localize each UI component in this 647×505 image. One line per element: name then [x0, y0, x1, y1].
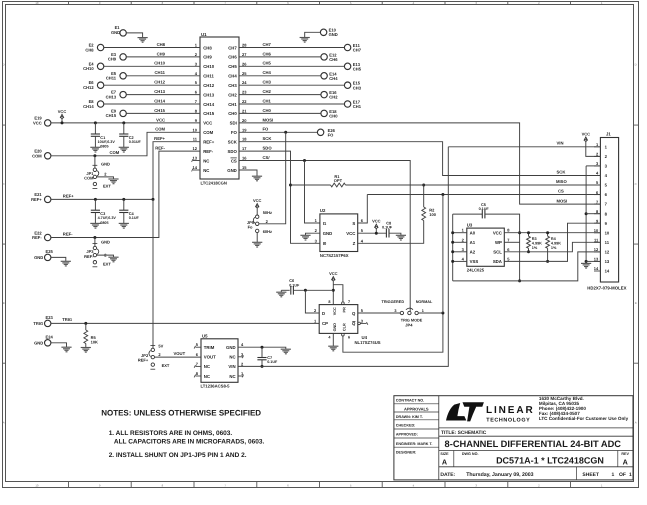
terminal E22 REF-: [32, 230, 51, 240]
JP2 labels: [138, 344, 170, 369]
wire E25 to ground: [51, 257, 66, 261]
terminal E10 GND: [320, 28, 337, 38]
svg-text:A1: A1: [470, 240, 476, 245]
wire U2 VCC pin5: [358, 232, 386, 234]
svg-text:NC: NC: [229, 355, 235, 360]
wire U2 GND pin2 to ground: [306, 233, 320, 235]
junction CS/ to U2.I1: [303, 159, 306, 162]
svg-text:10: 10: [594, 228, 599, 233]
terminal E23 TRIG: [33, 315, 53, 326]
wire U3 bottom rail to J1.12: [453, 252, 601, 281]
svg-text:D: D: [635, 63, 637, 67]
svg-text:D: D: [322, 311, 325, 316]
svg-text:J1: J1: [606, 132, 611, 137]
svg-text:27: 27: [242, 52, 247, 57]
svg-text:DATE:: DATE:: [440, 472, 455, 478]
svg-text:CH12: CH12: [154, 80, 165, 85]
junction U4 VCC / C6: [332, 289, 335, 292]
svg-text:CH15: CH15: [106, 113, 117, 118]
wire MOSI U1.20 to J1.7: [239, 123, 600, 204]
svg-text:OPT: OPT: [334, 178, 343, 183]
svg-text:CH1: CH1: [353, 104, 362, 109]
connector J1 body: [600, 138, 618, 283]
wire U1 CH7 to E11: [239, 47, 345, 49]
junction C1: [94, 121, 97, 124]
resistor R2 100: [422, 185, 426, 221]
svg-text:GND: GND: [101, 161, 110, 166]
U1 refdes label: [201, 32, 207, 37]
svg-text:24: 24: [242, 80, 247, 85]
svg-text:A0: A0: [470, 231, 476, 236]
svg-text:SCK: SCK: [228, 140, 238, 145]
svg-text:CLR: CLR: [343, 323, 347, 331]
svg-text:0.1UF: 0.1UF: [267, 360, 278, 364]
svg-text:0.01UF: 0.01UF: [129, 140, 142, 144]
ground at E25: [61, 261, 71, 266]
svg-text:13: 13: [605, 259, 610, 264]
svg-text:19: 19: [242, 127, 247, 132]
svg-text:A: A: [3, 420, 5, 424]
svg-text:E24: E24: [46, 335, 54, 340]
net label CH13: [154, 89, 165, 94]
svg-text:TRIG: TRIG: [62, 317, 72, 322]
svg-text:CH13: CH13: [154, 89, 165, 94]
wire E4 to U1 pin 3: [104, 65, 200, 67]
title block grid: [394, 396, 633, 480]
svg-text:CH0: CH0: [263, 108, 272, 113]
wire CS/ branch to U2 I1: [305, 161, 320, 224]
svg-text:CS/: CS/: [263, 155, 271, 160]
ground at E24: [61, 347, 71, 352]
junction C7 top: [261, 346, 264, 349]
svg-text:WP: WP: [495, 240, 502, 245]
svg-text:CH15: CH15: [154, 108, 165, 113]
wire J1.8 to ground rail: [586, 213, 600, 215]
U2 pin names: [323, 221, 356, 246]
junction CS row / JP4: [441, 193, 444, 196]
svg-text:16: 16: [242, 156, 247, 161]
svg-text:CH10: CH10: [83, 66, 94, 71]
title schematic row: [441, 430, 487, 436]
wire U2 Z to R2: [358, 221, 424, 244]
junction J1.13 gnd: [585, 260, 588, 263]
svg-text:S: S: [352, 221, 355, 226]
wire REF+ down to JP2: [152, 199, 154, 348]
svg-text:SDI: SDI: [230, 121, 237, 126]
jumper JP2 REF+: [149, 345, 155, 369]
svg-text:CS: CS: [231, 158, 237, 163]
wire U3 pin1 to rail: [451, 231, 467, 234]
terminal E1 GND: [111, 25, 126, 36]
size / dwg / rev row: [440, 451, 629, 467]
svg-text:A: A: [442, 458, 447, 467]
svg-text:CHECKED:: CHECKED:: [396, 424, 415, 428]
net label CH7 right: [263, 42, 272, 47]
wire U3 pin2 to rail: [451, 241, 467, 244]
ground at U5: [281, 349, 291, 354]
svg-text:17: 17: [242, 146, 247, 151]
net label REF+ row: [154, 136, 165, 141]
net label CH10: [154, 61, 165, 66]
wire SCK U1.18 to J1.4: [239, 142, 600, 176]
terminal E17 CH1: [344, 100, 361, 110]
svg-text:FO: FO: [328, 133, 335, 138]
svg-text:CH7: CH7: [263, 42, 272, 47]
svg-text:DESIGNER:: DESIGNER:: [396, 451, 417, 455]
svg-text:TECHNOLOGY: TECHNOLOGY: [486, 418, 530, 424]
svg-text:3: 3: [394, 309, 396, 313]
svg-text:CH7: CH7: [353, 48, 362, 53]
junction C3: [94, 198, 97, 201]
U3 pin numbers: [462, 228, 511, 262]
svg-text:15: 15: [242, 165, 247, 170]
U1 pin names and numbers: [193, 43, 248, 173]
svg-text:CH10: CH10: [203, 64, 215, 69]
svg-text:1%: 1%: [532, 246, 538, 250]
svg-text:10: 10: [605, 230, 610, 235]
wire REF+ E21 to U1 pin11: [51, 142, 200, 200]
power VCC at JP5: [253, 198, 262, 215]
ground at C3: [90, 223, 100, 228]
capacitor C8 0.1UF: [386, 229, 401, 238]
svg-text:VIN: VIN: [557, 141, 564, 146]
svg-text:GND: GND: [111, 30, 120, 35]
net label CH3 right: [263, 80, 272, 85]
svg-text:13: 13: [193, 156, 198, 161]
svg-text:TRIG: TRIG: [33, 321, 43, 326]
svg-text:CH11: CH11: [203, 74, 214, 79]
svg-text:CH9: CH9: [108, 57, 117, 62]
svg-text:12: 12: [605, 250, 610, 255]
net label MOSI (U1): [263, 117, 274, 122]
terminal E12 CH6: [321, 52, 338, 62]
junction REF+ to JP2: [152, 198, 155, 201]
wire C6 node to U4 D: [305, 290, 319, 313]
svg-text:DWG NO.: DWG NO.: [462, 452, 479, 456]
svg-text:25: 25: [242, 71, 247, 76]
svg-text:CH5: CH5: [353, 66, 362, 71]
svg-text:SCK: SCK: [263, 136, 272, 141]
junction C6 to U4 D: [304, 289, 307, 292]
voltage reference U5 LT1236ACS8-5 body: [201, 339, 238, 383]
svg-text:10: 10: [35, 484, 39, 488]
svg-text:LTC Confidential-For Customer: LTC Confidential-For Customer Use Only: [539, 416, 629, 421]
svg-text:I1: I1: [323, 221, 327, 226]
junction FO / JP5: [284, 131, 287, 134]
svg-text:VOUT: VOUT: [204, 355, 216, 360]
junction JP3: [93, 236, 96, 239]
wire TRIG E23 to U4.CP: [51, 322, 320, 324]
svg-text:REV: REV: [621, 452, 629, 456]
flip-flop U4 NL17SZ74US body: [319, 305, 358, 334]
wire CS row (U2.S to J1.6): [367, 194, 600, 196]
svg-text:4.99K: 4.99K: [551, 242, 561, 246]
svg-text:1. ALL RESISTORS ARE IN OHMS,: 1. ALL RESISTORS ARE IN OHMS, 0603.: [109, 430, 233, 437]
svg-text:4.99K: 4.99K: [532, 242, 542, 246]
U5 TRIM stub: [194, 346, 201, 349]
svg-text:MISO: MISO: [556, 179, 567, 184]
svg-text:GND: GND: [227, 168, 237, 173]
svg-text:26: 26: [242, 61, 247, 66]
svg-text:CH14: CH14: [203, 102, 215, 107]
wire REF- E22 to U1 pin12: [51, 151, 200, 237]
main title 8-CHANNEL DIFFERENTIAL 24-BIT ADC: [445, 439, 622, 449]
svg-text:MOSI: MOSI: [263, 117, 274, 122]
wire U1 CH0 to E18: [239, 112, 321, 114]
U5 value label LT1236ACS8-5: [201, 384, 231, 389]
svg-text:CH8: CH8: [203, 45, 212, 50]
svg-text:COM: COM: [155, 127, 165, 132]
wire U1 CH2 to E16: [239, 94, 321, 96]
svg-text:CH11: CH11: [155, 70, 166, 75]
net label TRIG: [62, 317, 72, 322]
svg-text:CH0: CH0: [329, 114, 338, 119]
terminal E8 CH14: [83, 99, 104, 109]
C7 labels: [267, 355, 278, 364]
terminal E18 CH0: [321, 109, 338, 119]
net label REF+ (E21): [63, 194, 74, 199]
JP1 labels: [84, 161, 111, 188]
svg-text:B: B: [635, 301, 637, 305]
svg-text:0.1UF: 0.1UF: [382, 226, 393, 230]
wire U1 CH1 to E17: [239, 103, 345, 105]
U5 pin names: [204, 345, 236, 379]
wire U3 pin4 to rail: [451, 260, 467, 263]
svg-text:NC: NC: [203, 158, 209, 163]
svg-text:REF+: REF+: [138, 358, 149, 363]
wire FO U1.19 to E26: [239, 131, 318, 133]
svg-text:SCK: SCK: [557, 170, 566, 175]
wire E9 to U1 pin 8: [126, 112, 200, 114]
Linear Technology logo: [446, 402, 535, 423]
svg-text:13: 13: [594, 257, 599, 262]
net label VIN: [557, 141, 564, 146]
svg-text:12: 12: [193, 146, 198, 151]
wire E24 to ground: [51, 343, 67, 347]
jumper JP1 COM: [93, 156, 99, 189]
U5 NC7 stub: [194, 365, 201, 368]
notes heading: [101, 408, 261, 417]
svg-text:CH6: CH6: [329, 57, 338, 62]
ground at C6: [276, 290, 286, 297]
svg-text:CH1: CH1: [228, 102, 237, 107]
svg-text:CH5: CH5: [228, 64, 237, 69]
wire JP5 pin3 to ground: [256, 233, 258, 243]
net label VOUT: [174, 351, 186, 356]
J1 pin stubs and numbers: [594, 142, 610, 274]
wire VCC rail E19 to U1 pin9: [51, 122, 200, 124]
svg-text:VSS: VSS: [470, 259, 479, 264]
net label COM (E20): [110, 150, 120, 155]
terminal E15 CH3: [344, 81, 361, 91]
svg-text:SDA: SDA: [493, 259, 502, 264]
net label COM row: [155, 127, 165, 132]
junction R5: [84, 322, 87, 325]
svg-text:CH11: CH11: [106, 76, 117, 81]
net label CH11: [155, 70, 166, 75]
wire J1.3 to ground rail: [586, 165, 600, 167]
svg-text:VCC: VCC: [333, 307, 337, 315]
net label MISO (J1): [556, 179, 567, 184]
U4 pin names: [322, 311, 356, 326]
wire U1 CH4 to E14: [239, 75, 321, 77]
C5 labels: [479, 202, 490, 211]
terminal E26 FO: [317, 128, 335, 138]
svg-text:SCL: SCL: [493, 250, 502, 255]
svg-text:GND: GND: [34, 341, 43, 346]
svg-text:CH2: CH2: [329, 95, 338, 100]
wire E3 to U1 pin 2: [126, 56, 200, 58]
net label SCK (U1): [263, 136, 272, 141]
svg-text:NL17SZ74US: NL17SZ74US: [355, 340, 381, 345]
U5 NC1 stub: [238, 375, 244, 378]
wire JP3 pin2 to ground: [97, 255, 114, 257]
wire E8 to U1 pin 7: [104, 103, 200, 105]
svg-text:I0: I0: [323, 241, 327, 246]
svg-text:NC7SZ157P6X: NC7SZ157P6X: [320, 253, 349, 258]
svg-text:14: 14: [605, 269, 610, 274]
svg-text:CH2: CH2: [263, 89, 272, 94]
svg-text:28: 28: [242, 43, 247, 48]
svg-text:SDO: SDO: [227, 149, 237, 154]
terminal E5 CH11: [106, 71, 126, 81]
svg-text:CS: CS: [558, 189, 564, 194]
wire U3 VCC row to J1.10: [504, 232, 600, 234]
wire U5 GND to ground: [238, 347, 286, 349]
IC U3 24LC025 body: [467, 228, 505, 266]
svg-text:CH3: CH3: [263, 80, 272, 85]
note 1 line 2: [114, 439, 265, 446]
U1 pin 13 NC stub: [192, 159, 200, 162]
svg-text:PR: PR: [343, 307, 347, 313]
svg-text:VCC: VCC: [253, 198, 262, 203]
R3 labels: [532, 237, 542, 250]
note 2: [109, 452, 247, 459]
op-amp U1 LTC2418CGN body: [200, 37, 239, 179]
net label CH12: [154, 80, 165, 85]
junction J1.8 gnd: [585, 212, 588, 215]
terminal E9 CH15: [106, 108, 127, 118]
junction JP4 / CLR / CS: [441, 312, 444, 315]
svg-text:10: 10: [35, 1, 39, 5]
U4 GND pin to ground: [328, 333, 338, 350]
svg-text:VCC: VCC: [58, 109, 67, 114]
ground at C4: [119, 223, 129, 228]
terminal E11 CH7: [344, 43, 361, 53]
C3 labels: [98, 211, 117, 225]
svg-text:20: 20: [242, 118, 247, 123]
svg-text:FO: FO: [231, 130, 238, 135]
svg-text:FO: FO: [263, 127, 270, 132]
svg-text:CH12: CH12: [83, 85, 94, 90]
wire JP1 pin2 to ground: [97, 177, 114, 179]
wire U2 S to CS net: [358, 195, 368, 224]
wire MISO row to J1.5: [346, 184, 601, 186]
svg-text:ENGINEER: MARK T.: ENGINEER: MARK T.: [396, 442, 433, 446]
svg-text:REF-: REF-: [63, 232, 73, 237]
svg-text:5V: 5V: [158, 344, 163, 349]
svg-text:GND: GND: [101, 240, 110, 245]
net label CS (J1): [558, 189, 564, 194]
IC U2 NC7SZ157P6X body: [320, 214, 358, 252]
svg-text:CH14: CH14: [83, 104, 94, 109]
net label CH4 right: [263, 70, 272, 75]
jumper JP3 REF-: [93, 238, 99, 267]
svg-text:VCC: VCC: [346, 231, 355, 236]
U4 PR loop to VCC: [333, 285, 344, 305]
wire E6 to U1 pin 5: [104, 84, 200, 86]
svg-text:0.1UF: 0.1UF: [129, 216, 140, 220]
capacitor C1 10UF 6.3V: [91, 123, 100, 147]
svg-text:Thursday, January 09, 2003: Thursday, January 09, 2003: [466, 472, 533, 478]
svg-text:GND: GND: [34, 255, 43, 260]
svg-text:TRIGGERED: TRIGGERED: [382, 300, 405, 304]
capacitor C7 0.1UF: [257, 347, 266, 366]
U4 CLR loop to JP4: [342, 313, 443, 352]
power VCC at J1: [582, 132, 601, 157]
power VCC at U4: [329, 271, 338, 305]
svg-text:C: C: [635, 182, 637, 186]
C6 labels: [289, 278, 300, 287]
U4 refdes label: [362, 335, 368, 340]
wire U4 Q to JP4 pin3: [358, 312, 400, 314]
terminal E19 VCC: [33, 116, 51, 126]
net label REF- row: [155, 146, 165, 151]
svg-text:VCC: VCC: [372, 219, 381, 224]
U5 refdes label: [202, 333, 208, 338]
capacitor C5 0.1UF: [482, 210, 519, 281]
svg-text:VCC: VCC: [33, 121, 42, 126]
svg-text:REF-: REF-: [155, 146, 165, 151]
svg-text:100: 100: [429, 212, 436, 217]
wire U3 ground rail (left): [452, 214, 454, 281]
svg-text:U2: U2: [320, 208, 326, 213]
terminal E3 CH9: [108, 52, 126, 62]
svg-text:ALL CAPACITORS ARE IN MICROFAR: ALL CAPACITORS ARE IN MICROFARADS, 0603.: [114, 439, 265, 446]
ground at E10: [300, 38, 310, 43]
svg-text:0.1UF: 0.1UF: [289, 283, 300, 287]
U5 NC8 stub: [194, 375, 201, 378]
svg-text:VCC: VCC: [329, 271, 338, 276]
terminal E14 CH4: [321, 71, 338, 81]
svg-text:A: A: [623, 458, 628, 467]
capacitor C2 0.01UF: [119, 123, 128, 147]
svg-text:CH4: CH4: [263, 70, 272, 75]
terminal E24 GND: [34, 335, 53, 346]
svg-text:CH13: CH13: [106, 94, 117, 99]
svg-text:CH3: CH3: [353, 85, 362, 90]
svg-text:A2: A2: [470, 250, 476, 255]
net label VCC row: [156, 117, 165, 122]
svg-text:E23: E23: [46, 315, 54, 320]
svg-text:C: C: [3, 182, 5, 186]
U3 pin names: [470, 231, 503, 265]
U3 value label 24LC025: [467, 268, 485, 273]
svg-text:COM: COM: [32, 153, 42, 158]
JP3 labels: [84, 240, 111, 267]
svg-text:CH9: CH9: [157, 51, 166, 56]
svg-text:APPROVALS: APPROVALS: [404, 406, 429, 411]
svg-text:CH9: CH9: [203, 55, 212, 60]
resistor R3 4.99K: [527, 231, 531, 253]
svg-text:CH2: CH2: [228, 92, 237, 97]
ground at JP3: [108, 257, 118, 262]
U4 rotated pin names: [333, 307, 346, 332]
svg-text:LINEAR: LINEAR: [486, 405, 535, 416]
junction C2: [122, 121, 125, 124]
R2 labels: [429, 208, 436, 218]
svg-text:1: 1: [612, 472, 615, 478]
